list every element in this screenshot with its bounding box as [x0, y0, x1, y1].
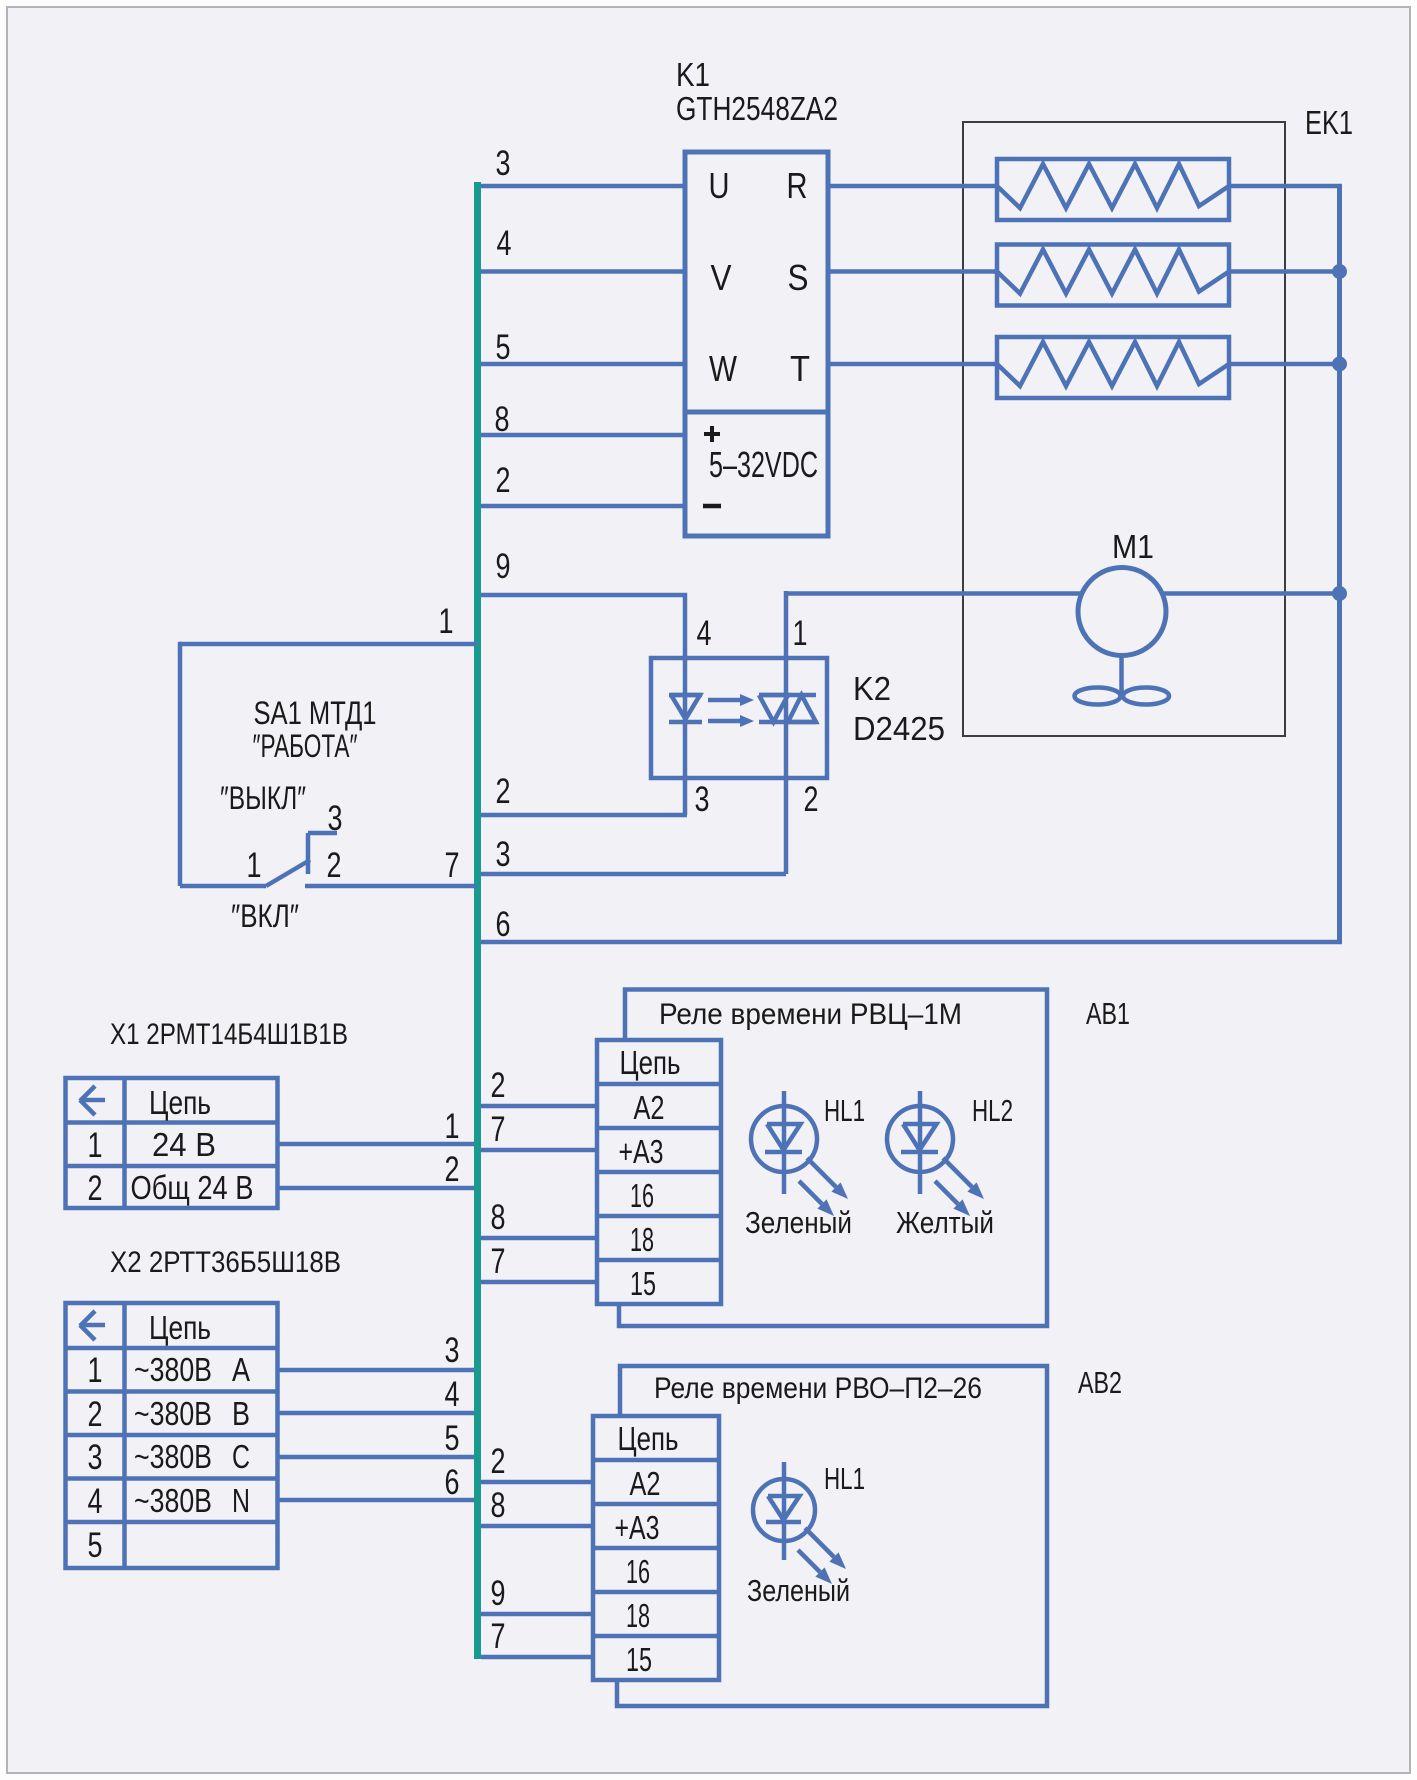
svg-text:Цепь: Цепь [620, 1044, 681, 1081]
svg-text:M1: M1 [1112, 528, 1154, 565]
wire 8 bus to K1 plus [481, 433, 685, 438]
heating element 3 (phase T) [997, 337, 1229, 398]
wire heating element 3 to return bus [1229, 362, 1337, 367]
svg-text:6: 6 [445, 1463, 460, 1502]
svg-text:SA1 МТД1: SA1 МТД1 [254, 695, 377, 731]
relay K1 internal divider [685, 410, 828, 415]
HL1 (АВ2) vertical lead [782, 1462, 787, 1560]
svg-text:U: U [709, 165, 730, 206]
АВ2 table row line 2 [593, 1502, 719, 1507]
X2 table row line 1 [66, 1346, 278, 1351]
SA1 switch blade [266, 860, 310, 886]
node junction heater 3 / return bus [1332, 357, 1347, 372]
HL1 light arrow 1 [807, 1158, 836, 1187]
АВ1 box outline [619, 990, 1047, 1327]
X2 table row line 2 [66, 1389, 280, 1394]
wire 1 X1 pin1 to bus [278, 1142, 474, 1147]
svg-text:4: 4 [445, 1375, 460, 1414]
wire 3 X2 pin1 to bus [278, 1368, 474, 1373]
АВ1 terminal table outline [597, 1040, 721, 1304]
svg-text:С: С [232, 1438, 250, 1475]
X2 table row line 5 [66, 1520, 280, 1525]
svg-text:4: 4 [88, 1482, 103, 1521]
АВ1 table row line 1 [597, 1082, 721, 1087]
svg-text:1: 1 [439, 602, 454, 641]
svg-text:″ВЫКЛ″: ″ВЫКЛ″ [220, 780, 306, 816]
svg-text:АВ2: АВ2 [1078, 1365, 1122, 1400]
svg-text:А2: А2 [634, 1089, 665, 1126]
svg-text:V: V [711, 257, 732, 298]
svg-text:Желтый: Желтый [896, 1205, 994, 1240]
svg-text:~380В: ~380В [134, 1482, 212, 1519]
K2 triac left triangle [759, 695, 788, 722]
svg-text:Зеленый: Зеленый [747, 1573, 850, 1608]
SA1 box bottom edge / pin 1 wire [180, 884, 266, 889]
svg-text:15: 15 [626, 1641, 652, 1678]
svg-text:~380В: ~380В [134, 1438, 212, 1475]
svg-text:1: 1 [445, 1107, 460, 1146]
svg-text:18: 18 [630, 1221, 654, 1258]
wire K1 T to heating element 3 [828, 362, 997, 367]
wire 5 bus to K1 W [481, 362, 685, 367]
heater unit EK1 outline box [963, 122, 1285, 736]
wire main teal control bus (vertical) [474, 182, 481, 1659]
svg-text:2: 2 [491, 1066, 506, 1105]
svg-text:Реле времени РВО–П2–26: Реле времени РВО–П2–26 [654, 1372, 982, 1405]
svg-text:+А3: +А3 [615, 1509, 660, 1546]
svg-text:Цепь: Цепь [149, 1309, 211, 1346]
svg-text:+А3: +А3 [619, 1133, 664, 1170]
wire 3 bus to K1 U [481, 184, 685, 189]
wire 7 bus to АВ2 15 [481, 1655, 593, 1660]
wire 2 bus to АВ2 А2 [481, 1480, 593, 1485]
wire 9 bus to АВ2 18 [481, 1612, 593, 1617]
wire 2 bus to K2 pin 3 [481, 813, 687, 818]
svg-text:16: 16 [630, 1177, 654, 1214]
HL1 (АВ2) cathode bar [766, 1520, 801, 1525]
svg-text:K1: K1 [676, 56, 710, 93]
АВ1 table row line 4 [597, 1214, 721, 1219]
wire K2 pin 1 riser [784, 591, 789, 874]
svg-text:2: 2 [496, 461, 511, 500]
K1 minus terminal mark [703, 504, 721, 509]
HL1 light arrow 2 [799, 1181, 822, 1204]
svg-text:А: А [232, 1351, 250, 1388]
svg-text:А2: А2 [630, 1465, 661, 1502]
wire K1 R to heating element 1 [828, 184, 997, 189]
HL2 cathode bar [901, 1150, 938, 1155]
motor M1 fan blade right [1123, 688, 1169, 705]
K2 input LED anode bar [669, 693, 702, 698]
svg-text:3: 3 [328, 799, 343, 838]
wire K1 S to heating element 2 [828, 269, 997, 274]
svg-text:9: 9 [491, 1574, 506, 1613]
svg-text:~380В: ~380В [134, 1395, 212, 1432]
wire 5 X2 pin3 to bus [278, 1455, 474, 1460]
svg-text:24 В: 24 В [152, 1126, 216, 1163]
svg-text:2: 2 [88, 1395, 103, 1434]
svg-text:S: S [788, 257, 809, 298]
HL2 light arrow 2 [935, 1181, 958, 1204]
wire 2 bus to АВ1 А2 [481, 1104, 597, 1109]
svg-text:18: 18 [626, 1597, 650, 1634]
АВ1 table row line 3 [597, 1170, 721, 1175]
АВ2 box outline [617, 1366, 1047, 1706]
svg-text:5–32VDC: 5–32VDC [709, 444, 818, 485]
wire 6 bus to return bus [481, 940, 1342, 945]
node junction motor / return bus [1332, 586, 1347, 601]
wire K2 pin 4 riser [683, 593, 688, 815]
svg-text:АВ1: АВ1 [1086, 996, 1130, 1031]
wire motor M1 to return bus [1161, 591, 1340, 596]
indicator LED HL2 lamp circle [887, 1106, 953, 1172]
svg-text:D2425: D2425 [853, 710, 945, 747]
wire 4 X2 pin2 to bus [278, 1411, 474, 1416]
svg-text:HL1: HL1 [824, 1461, 865, 1496]
svg-text:1: 1 [247, 846, 262, 885]
svg-text:″РАБОТА″: ″РАБОТА″ [253, 728, 358, 764]
HL1 cathode bar [765, 1150, 802, 1155]
svg-text:2: 2 [496, 772, 511, 811]
АВ2 table row line 1 [593, 1458, 719, 1463]
svg-text:7: 7 [445, 846, 460, 885]
svg-text:8: 8 [491, 1198, 506, 1237]
X1 header arrow [81, 1098, 105, 1103]
АВ1 table row line 5 [597, 1258, 721, 1263]
SA1 box left edge [178, 642, 183, 886]
svg-text:5: 5 [88, 1526, 103, 1565]
wire 9 bus to K2 pin 4 [481, 593, 687, 598]
АВ2 table row line 4 [593, 1590, 719, 1595]
K2 coupling arrow upper [708, 698, 742, 703]
wire 7 SA1 pin 2 to bus [305, 884, 477, 889]
svg-text:HL1: HL1 [824, 1093, 865, 1128]
wire 6 X2 pin4 to bus [278, 1498, 474, 1503]
svg-text:Общ 24 В: Общ 24 В [131, 1169, 254, 1206]
HL2 vertical lead [918, 1091, 923, 1194]
svg-text:8: 8 [491, 1486, 506, 1525]
svg-text:В: В [232, 1395, 250, 1432]
svg-text:6: 6 [496, 905, 511, 944]
svg-text:2: 2 [445, 1150, 460, 1189]
svg-text:4: 4 [497, 224, 512, 263]
svg-text:3: 3 [496, 835, 511, 874]
K2 input LED triangle [671, 695, 700, 719]
svg-text:5: 5 [496, 328, 511, 367]
svg-text:GTH2548ZA2: GTH2548ZA2 [676, 90, 838, 127]
SA1 contact 3 stub [308, 831, 337, 836]
svg-text:T: T [790, 348, 810, 389]
svg-text:1: 1 [88, 1126, 103, 1165]
svg-text:N: N [232, 1482, 250, 1519]
K2 triac top bar [759, 693, 816, 698]
wire 8 bus to АВ2 +А3 [481, 1524, 593, 1529]
svg-text:15: 15 [630, 1265, 656, 1302]
svg-text:X2 2РТТ36Б5Ш18В: X2 2РТТ36Б5Ш18В [110, 1246, 341, 1279]
svg-text:1: 1 [793, 614, 808, 653]
node junction heater 2 / return bus [1332, 264, 1347, 279]
optocoupler K2 body [651, 658, 827, 778]
svg-text:2: 2 [327, 846, 342, 885]
HL2 light arrow 1 [943, 1158, 972, 1187]
indicator LED HL1 (АВ2) lamp circle [753, 1479, 815, 1541]
svg-text:Цепь: Цепь [149, 1084, 211, 1121]
wire K2 pin1 node to motor M1 [786, 591, 1083, 596]
svg-text:3: 3 [445, 1331, 460, 1370]
svg-text:3: 3 [88, 1438, 103, 1477]
K2 input LED cathode bar [669, 720, 702, 725]
АВ2 table row line 3 [593, 1546, 719, 1551]
svg-text:R: R [787, 165, 808, 206]
svg-text:Зеленый: Зеленый [745, 1205, 852, 1240]
wire heating element 2 to return bus [1229, 269, 1337, 274]
АВ2 table row line 5 [593, 1634, 719, 1639]
K2 triac bottom bar [759, 720, 816, 725]
svg-text:W: W [709, 348, 737, 389]
АВ1 table row line 2 [597, 1126, 721, 1131]
svg-text:3: 3 [695, 780, 710, 819]
X1 table column divider [122, 1078, 127, 1208]
svg-text:1: 1 [88, 1351, 103, 1390]
svg-text:Цепь: Цепь [618, 1420, 679, 1457]
X1 table row line 1 [66, 1120, 278, 1125]
svg-text:EK1: EK1 [1305, 104, 1353, 141]
motor M1 body circle [1078, 568, 1166, 656]
svg-text:2: 2 [804, 780, 819, 819]
svg-text:HL2: HL2 [972, 1093, 1013, 1128]
svg-text:″ВКЛ″: ″ВКЛ″ [231, 898, 299, 934]
relay K1 body [685, 152, 828, 536]
wire 7 bus to АВ1 +А3 [481, 1148, 597, 1153]
HL1 diode triangle [767, 1124, 801, 1150]
indicator LED HL1 lamp circle [751, 1106, 817, 1172]
wire 2 bus to K1 minus [481, 504, 685, 509]
HL1 vertical lead [782, 1091, 787, 1194]
X1 table row line 2 [66, 1164, 280, 1169]
K1 plus terminal mark [704, 432, 720, 436]
wire 2 X1 pin2 to bus [278, 1186, 474, 1191]
АВ2 terminal table outline [593, 1416, 719, 1680]
svg-text:X1 2РМТ14Б4Ш1В1В: X1 2РМТ14Б4Ш1В1В [110, 1018, 348, 1051]
motor M1 shaft [1119, 655, 1124, 693]
heating element 2 (phase S) [997, 245, 1229, 306]
svg-text:3: 3 [496, 144, 511, 183]
svg-text:16: 16 [626, 1553, 650, 1590]
wire heating element 1 to right return bus [1229, 184, 1342, 189]
X2 header arrow [81, 1323, 105, 1328]
X2 table row line 4 [66, 1476, 280, 1481]
HL1 (АВ2) light arrow 2 [798, 1550, 820, 1572]
svg-text:7: 7 [491, 1617, 506, 1656]
svg-text:Реле времени РВЦ–1М: Реле времени РВЦ–1М [659, 998, 962, 1031]
wire 7 bus to АВ1 15 [481, 1280, 597, 1285]
svg-text:2: 2 [491, 1442, 506, 1481]
heating element 1 (phase R) [997, 159, 1229, 220]
HL2 diode triangle [903, 1124, 937, 1150]
svg-text:2: 2 [88, 1169, 103, 1208]
svg-text:~380В: ~380В [134, 1351, 212, 1388]
SA1 contact 2 bar [306, 833, 311, 874]
svg-text:8: 8 [495, 400, 510, 439]
K2 coupling arrow lower [708, 719, 742, 724]
motor M1 fan blade left [1075, 688, 1121, 705]
K2 triac right triangle [788, 695, 816, 722]
wire right return bus (vertical) [1337, 184, 1342, 944]
svg-text:7: 7 [491, 1242, 506, 1281]
wire 4 bus to K1 V [481, 269, 685, 274]
wire 3 bus to K2 pin 2 [481, 872, 786, 877]
HL1 (АВ2) light arrow 1 [805, 1528, 834, 1557]
svg-text:7: 7 [491, 1110, 506, 1149]
connector X1 table outline [66, 1078, 278, 1208]
svg-text:4: 4 [697, 614, 712, 653]
svg-text:5: 5 [445, 1419, 460, 1458]
connector X2 table outline [66, 1303, 278, 1568]
wire 8 bus to АВ1 18 [481, 1236, 597, 1241]
svg-text:9: 9 [496, 547, 511, 586]
X2 table column divider [122, 1303, 127, 1568]
svg-text:K2: K2 [853, 670, 891, 707]
HL1 (АВ2) diode triangle [768, 1496, 800, 1520]
wire 1 SA1 box top edge to bus [180, 642, 477, 647]
X2 table row line 3 [66, 1433, 280, 1438]
